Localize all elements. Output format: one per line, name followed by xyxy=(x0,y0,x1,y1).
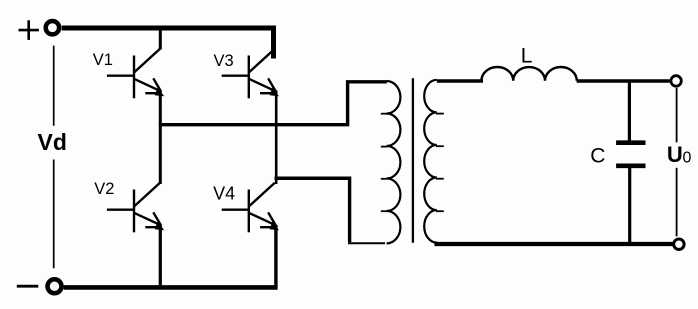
wire Vd source vertical (upper part) xyxy=(53,46,55,126)
transistor V3 xyxy=(222,49,279,99)
capacitor C top plate xyxy=(616,140,645,145)
capacitor C bottom plate xyxy=(616,164,645,169)
wire V1 collector to top bus xyxy=(159,27,162,50)
output terminal bottom-right xyxy=(674,239,684,249)
svg-text:V4: V4 xyxy=(213,184,235,204)
wire V4 emitter to bottom bus xyxy=(274,225,277,287)
transformer primary winding xyxy=(387,81,401,243)
wire node B vertical (V3 emitter to V4 collector) xyxy=(275,91,278,185)
wire primary bottom horizontal xyxy=(348,242,385,244)
wire Vd source vertical (lower part) xyxy=(53,160,55,269)
input terminal top-left xyxy=(46,21,59,34)
wire capacitor top lead xyxy=(628,81,631,141)
transformer secondary winding xyxy=(424,80,437,243)
minus sign (-) input polarity xyxy=(17,285,39,288)
wire inductor to output terminal xyxy=(577,79,670,82)
transformer secondary winding cusp ticks xyxy=(436,114,444,212)
wire bottom DC bus (thick) xyxy=(64,285,278,290)
transformer core xyxy=(412,78,414,243)
wire node A vertical (V1 emitter to V2 collector) xyxy=(159,91,162,185)
svg-text:V2: V2 xyxy=(94,180,114,198)
output terminal top-right xyxy=(671,76,681,86)
wire capacitor bottom lead xyxy=(628,168,631,245)
wire top DC bus (thick) xyxy=(62,28,274,59)
svg-text:V3: V3 xyxy=(214,52,234,70)
transistor V1 xyxy=(107,49,164,99)
svg-text:U: U xyxy=(667,142,683,167)
inductor L xyxy=(481,67,576,81)
transistor V2 xyxy=(107,183,164,233)
svg-text:0: 0 xyxy=(683,149,692,166)
svg-text:L: L xyxy=(521,45,533,68)
wire V2 emitter to bottom bus xyxy=(159,225,162,287)
svg-text:V1: V1 xyxy=(93,51,113,69)
wire node B to transformer primary bottom xyxy=(275,178,350,242)
wire output right vertical (lower) xyxy=(676,168,678,237)
wire secondary bottom rail xyxy=(434,242,673,246)
transistor V4 xyxy=(222,183,279,233)
svg-text:C: C xyxy=(590,145,605,168)
plus sign (+) input polarity xyxy=(19,20,39,40)
wire node A to transformer primary top xyxy=(159,82,387,125)
wire secondary top to inductor xyxy=(437,79,483,82)
wire output right vertical (upper) xyxy=(676,88,678,143)
input terminal bottom-left xyxy=(48,279,62,293)
transformer primary winding cusp ticks xyxy=(381,114,388,212)
svg-text:Vd: Vd xyxy=(38,129,67,155)
